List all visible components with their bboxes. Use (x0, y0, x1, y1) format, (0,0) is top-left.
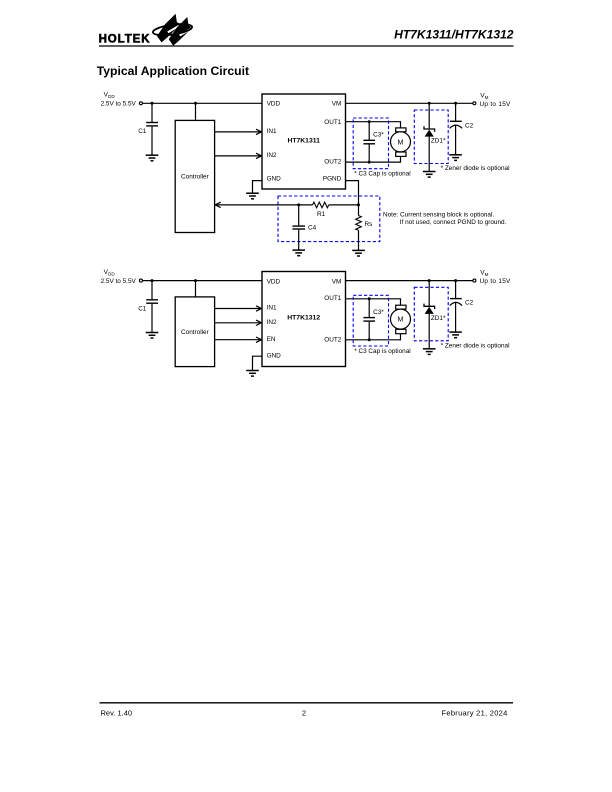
svg-text:EN: EN (267, 336, 276, 343)
pin GND U2 (267, 352, 282, 359)
wire C2 lower lead circuit2 (455, 302, 457, 332)
wire C3 lower lead circuit2 (368, 322, 370, 340)
svg-text:* Zener diode is optional: * Zener diode is optional (441, 165, 510, 172)
wire C2 lower lead circuit1 (455, 125, 457, 155)
footer date (442, 709, 508, 718)
svg-text:VDD: VDD (267, 101, 281, 108)
FOOTER (100, 703, 514, 718)
capacitor C4 (292, 224, 316, 231)
wire C4 lower lead (298, 230, 300, 250)
wire C1 upper lead circuit2 (151, 281, 153, 300)
ground chip GND circuit2 (246, 371, 259, 377)
motor M circuit1 (391, 128, 411, 156)
Holtek logo wordmark (99, 34, 151, 46)
pin VM U2 (332, 278, 342, 285)
label zener optional circuit2 (441, 342, 510, 349)
wire C2 upper lead circuit1 (455, 103, 457, 121)
wire feedback to controller (215, 202, 312, 207)
wire PGND to sense node (346, 181, 359, 205)
svg-text:IN2: IN2 (267, 152, 277, 159)
ground C2 circuit2 (449, 332, 462, 338)
HEADER (97, 14, 514, 78)
footer page number (302, 709, 306, 718)
svg-text:HOLTEK: HOLTEK (99, 34, 151, 46)
junction zener tap circuit2 (428, 279, 431, 282)
op IC U1 HT7K1311 (262, 94, 346, 189)
svg-text:GND: GND (267, 175, 282, 182)
pin IN2 U2 (267, 319, 277, 326)
svg-text:HT7K1311/HT7K1312: HT7K1311/HT7K1312 (394, 28, 514, 42)
wire OUT1 to motor circuit2 (346, 299, 401, 305)
svg-text:IN1: IN1 (267, 305, 277, 312)
pin VDD U1 (267, 101, 281, 108)
capacitor C3 circuit1 (363, 132, 384, 144)
node VDD supply label circuit2 (101, 269, 137, 285)
wire C3 upper lead circuit2 (368, 299, 370, 318)
wire zener lower lead circuit1 (428, 137, 430, 172)
ground C4 (292, 250, 305, 256)
wire R1 to Rs node (329, 204, 359, 206)
junction C3 top circuit2 (368, 297, 371, 300)
node VM supply label circuit2 (480, 270, 512, 286)
pin VM U1 (332, 101, 342, 108)
wire C2 upper lead circuit2 (455, 281, 457, 299)
wire VDD rail circuit2 (143, 280, 263, 282)
Holtek logo ellipse (152, 22, 193, 37)
svg-text:C1: C1 (138, 128, 147, 135)
svg-text:C2: C2 (465, 122, 474, 129)
svg-text:IN1: IN1 (267, 128, 277, 135)
svg-text:Up to 15V: Up to 15V (480, 101, 512, 108)
junction C3 bottom (368, 161, 371, 164)
wire IN1 circuit2 (215, 306, 262, 311)
controller block circuit1 (175, 120, 214, 232)
Holtek logo bolt 1 (157, 14, 179, 43)
svg-text:Controller: Controller (181, 329, 210, 336)
svg-text:OUT1: OUT1 (324, 295, 341, 302)
wire IN2 circuit2 (215, 320, 262, 325)
pin OUT1 U1 (324, 119, 341, 126)
terminal VM circuit1 (473, 102, 476, 105)
svg-text:GND: GND (267, 352, 282, 359)
junction C1 tap (151, 102, 154, 105)
svg-text:Note: Current sensing block is: Note: Current sensing block is optional. (383, 211, 494, 218)
svg-text:2: 2 (302, 709, 306, 718)
capacitor C1 circuit2 (138, 300, 158, 313)
optional C3 dashed box circuit2 (353, 295, 388, 346)
Holtek logo bolt 2 (169, 17, 191, 46)
pin IN2 U1 (267, 152, 277, 159)
svg-text:Controller: Controller (181, 174, 210, 181)
section title (97, 64, 249, 78)
wire C1 lower lead (151, 127, 153, 156)
svg-text:PGND: PGND (323, 175, 342, 182)
wire Rs lower lead (358, 230, 360, 250)
wire OUT2 to motor circuit2 (346, 334, 401, 340)
svg-text:C3*: C3* (373, 309, 384, 316)
node VM supply label circuit1 (480, 92, 512, 108)
ground zener circuit1 (423, 172, 436, 178)
svg-text:C1: C1 (138, 305, 147, 312)
CIRCUIT2 (101, 269, 511, 376)
svg-text:DD: DD (108, 94, 115, 99)
ground C1 circuit2 (146, 333, 159, 339)
svg-text:2.5V to 5.5V: 2.5V to 5.5V (101, 278, 137, 285)
label C3 optional circuit2 (354, 348, 410, 355)
junction C1 tap circuit2 (151, 279, 154, 282)
capacitor C1 (138, 123, 158, 136)
label zener optional circuit1 (441, 165, 510, 172)
wire controller supply lead (195, 103, 197, 120)
wire zener upper lead circuit1 (428, 103, 430, 129)
svg-text:C4: C4 (308, 224, 317, 231)
svg-text:C2: C2 (465, 300, 474, 307)
svg-text:M: M (398, 138, 404, 146)
pin IN1 U2 (267, 305, 277, 312)
wire C1 upper lead (151, 103, 153, 122)
svg-text:M: M (485, 95, 489, 100)
junction C4 tap (297, 203, 300, 206)
wire C4 upper lead (298, 205, 300, 226)
wire EN circuit2 (215, 337, 262, 342)
svg-text:Up to 15V: Up to 15V (480, 278, 512, 285)
svg-text:* C3 Cap is optional: * C3 Cap is optional (354, 171, 410, 178)
terminal VDD circuit1 (139, 102, 142, 105)
wire GND pin to ground circuit2 (253, 356, 263, 370)
svg-text:ZD1*: ZD1* (431, 138, 446, 145)
svg-text:2.5V to 5.5V: 2.5V to 5.5V (101, 101, 137, 108)
junction controller tap (194, 102, 197, 105)
ground Rs (352, 250, 365, 256)
pin GND U1 (267, 175, 282, 182)
pin PGND U1 (323, 175, 342, 182)
optional zener dashed box circuit1 (414, 110, 448, 164)
wire Rs upper lead (358, 205, 360, 216)
svg-text:OUT2: OUT2 (324, 159, 341, 166)
footer rule (100, 702, 514, 704)
svg-text:HT7K1312: HT7K1312 (287, 315, 320, 322)
svg-text:If not used, connect PGND to g: If not used, connect PGND to ground. (400, 219, 507, 226)
svg-text:HT7K1311: HT7K1311 (287, 138, 320, 145)
svg-text:DD: DD (108, 272, 115, 277)
ground C2 circuit1 (449, 155, 462, 161)
svg-text:C3*: C3* (373, 132, 384, 139)
wire OUT2 to motor circuit1 (346, 156, 401, 162)
wire zener lower lead circuit2 (428, 314, 430, 349)
svg-text:M: M (485, 272, 489, 277)
wire IN1 circuit1 (215, 129, 262, 134)
motor M circuit2 (391, 305, 411, 333)
note text current sensing (383, 211, 507, 226)
wire VDD rail circuit1 (143, 102, 263, 104)
resistor R1 (313, 202, 329, 218)
svg-text:R1: R1 (317, 211, 326, 218)
wire zener upper lead circuit2 (428, 281, 430, 307)
junction C3 top (368, 120, 371, 123)
svg-text:Typical Application Circuit: Typical Application Circuit (97, 64, 249, 78)
svg-text:Rs: Rs (365, 221, 373, 228)
capacitor C2 circuit1 (450, 121, 474, 129)
svg-text:OUT2: OUT2 (324, 336, 341, 343)
junction zener tap circuit1 (428, 102, 431, 105)
wire controller supply lead circuit2 (195, 281, 197, 297)
pin OUT1 U2 (324, 295, 341, 302)
terminal VDD circuit2 (139, 279, 142, 282)
pin VDD U2 (267, 278, 281, 285)
pin OUT2 U1 (324, 159, 341, 166)
zener diode ZD1 circuit1 (424, 126, 446, 144)
svg-text:VDD: VDD (267, 278, 281, 285)
ground zener circuit2 (423, 349, 436, 355)
part number heading (394, 28, 514, 42)
wire GND pin to ground circuit1 (253, 181, 263, 194)
optional C3 dashed box circuit1 (353, 118, 388, 169)
svg-text:February 21, 2024: February 21, 2024 (442, 709, 508, 718)
capacitor C2 circuit2 (450, 299, 474, 307)
terminal VM circuit2 (473, 279, 476, 282)
zener diode ZD1 circuit2 (424, 304, 446, 322)
svg-text:Rev. 1.40: Rev. 1.40 (101, 709, 133, 718)
node VDD supply label circuit1 (101, 92, 137, 108)
junction C2 tap circuit1 (454, 102, 457, 105)
footer revision (101, 709, 133, 718)
svg-text:* C3 Cap is optional: * C3 Cap is optional (354, 348, 410, 355)
svg-text:IN2: IN2 (267, 319, 277, 326)
ground C1 (146, 155, 159, 161)
pin OUT2 U2 (324, 336, 341, 343)
CIRCUIT1 (101, 92, 511, 256)
pin EN U2 (267, 336, 276, 343)
junction C3 bottom circuit2 (368, 338, 371, 341)
optional zener dashed box circuit2 (414, 287, 448, 341)
pin IN1 U1 (267, 128, 277, 135)
controller block circuit2 (175, 297, 214, 367)
wire C1 lower lead circuit2 (151, 304, 153, 333)
wire VM rail circuit1 (346, 102, 473, 104)
svg-text:VM: VM (332, 101, 342, 108)
op IC U2 HT7K1312 (262, 272, 346, 367)
wire C3 lower lead (368, 145, 370, 163)
junction controller tap circuit2 (194, 279, 197, 282)
resistor Rs (356, 216, 373, 231)
svg-text:VM: VM (332, 278, 342, 285)
wire OUT1 to motor circuit1 (346, 122, 401, 128)
ground chip GND circuit1 (246, 193, 259, 199)
svg-text:OUT1: OUT1 (324, 119, 341, 126)
wire IN2 circuit1 (215, 153, 262, 158)
wire VM rail circuit2 (346, 280, 473, 282)
junction C2 tap circuit2 (454, 279, 457, 282)
svg-text:ZD1*: ZD1* (431, 315, 446, 322)
junction Rs top (357, 203, 360, 206)
svg-text:* Zener diode is optional: * Zener diode is optional (441, 342, 510, 349)
svg-text:M: M (398, 316, 404, 324)
wire C3 upper lead (368, 122, 370, 140)
label C3 optional circuit1 (354, 171, 410, 178)
current sensing dashed box (278, 196, 380, 242)
header rule (99, 45, 514, 47)
capacitor C3 circuit2 (363, 309, 384, 321)
